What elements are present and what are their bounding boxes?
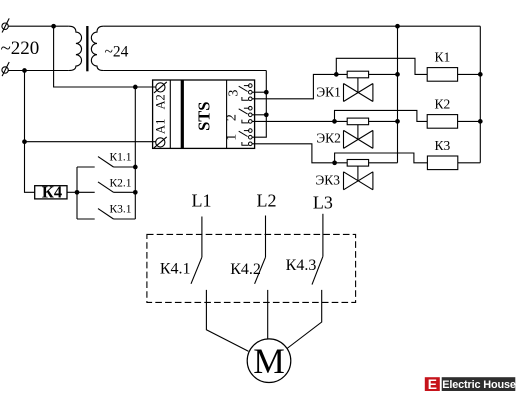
wire phase B down to K4 — [25, 71, 35, 193]
svg-text:К4.1: К4.1 — [160, 260, 191, 277]
svg-text:К2: К2 — [435, 97, 451, 112]
svg-text:3: 3 — [227, 90, 242, 97]
node N1 — [334, 72, 339, 77]
relay coil K3 — [427, 156, 457, 170]
motor M1 circle — [247, 339, 291, 383]
relay coil K2 — [427, 115, 457, 129]
svg-text:К3: К3 — [435, 138, 451, 153]
svg-text:STS: STS — [195, 102, 214, 131]
wire bus1 (valve return rail) — [397, 26, 399, 163]
svg-text:К1.1: К1.1 — [109, 151, 131, 163]
wire L1 drop — [201, 217, 203, 258]
svg-text:К3.1: К3.1 — [109, 203, 131, 215]
wire feed branch 3 — [252, 144, 334, 163]
STS terminal A1 — [154, 137, 167, 148]
wire phase A top — [8, 25, 69, 27]
wire K3 to bus2 — [458, 162, 481, 164]
svg-text:L2: L2 — [257, 190, 277, 210]
STS terminal A2 — [154, 82, 167, 93]
junction right rail at K2.1 — [133, 190, 138, 195]
valve EK1 body — [344, 78, 373, 102]
wire A1 feed — [25, 141, 157, 143]
wire feed branch 1 — [252, 74, 336, 98]
junction J2 on A2 wire — [133, 85, 138, 90]
wire branch 1 to K1 — [336, 58, 427, 74]
contact K4.3 blade — [312, 256, 323, 284]
wire branch 2 to K2 — [335, 110, 428, 121]
wire motor lead 1 — [206, 290, 248, 351]
wire STS common vertical — [252, 71, 266, 138]
junction bus2 branch1 — [478, 72, 483, 77]
node N3 — [332, 160, 337, 165]
wire phase B bottom — [8, 70, 69, 72]
contact K4.1 blade — [191, 257, 202, 284]
wire 24V top rail — [103, 25, 480, 27]
junction bus1 branch1 — [395, 72, 400, 77]
solenoid coil EK3 — [335, 160, 398, 167]
svg-text:ЭК1: ЭК1 — [316, 85, 341, 100]
junction common at contact 3 — [264, 90, 269, 95]
svg-text:A1: A1 — [154, 119, 168, 134]
svg-text:К4: К4 — [42, 183, 62, 202]
svg-text:К4.3: К4.3 — [286, 257, 317, 274]
wire L2 drop — [265, 216, 267, 258]
junction J4 on phase B vertical — [22, 139, 27, 144]
wire motor lead 2 — [267, 290, 269, 339]
wire branch 3 to K3 — [335, 153, 428, 163]
transformer T1 primary winding — [69, 26, 82, 70]
svg-text:К4.2: К4.2 — [230, 261, 261, 278]
transformer T1 secondary winding — [91, 26, 103, 70]
node N2 — [332, 119, 337, 124]
terminal X2 (bottom phase) — [2, 62, 9, 76]
wire right rail of K contacts — [134, 87, 136, 219]
svg-text:A2: A2 — [154, 94, 168, 109]
wire left rail of K contacts — [76, 167, 78, 219]
valve EK3 body — [344, 166, 373, 190]
svg-text:К1: К1 — [435, 50, 451, 65]
svg-text:M: M — [253, 341, 285, 381]
contact K4.2 blade — [255, 257, 266, 284]
junction bus2 branch2 — [478, 119, 483, 124]
STS output contact 2 — [239, 106, 252, 123]
junction right rail at K1.1 — [133, 165, 138, 170]
svg-text:К2.1: К2.1 — [109, 177, 131, 189]
svg-text:~220: ~220 — [1, 38, 40, 59]
wire K4 to contacts rail — [67, 191, 77, 193]
junction bus1 branch2 — [395, 119, 400, 124]
wire common link contact 3 — [252, 91, 266, 93]
wire feed branch 2 — [252, 120, 334, 122]
junction J3 on bottom phase wire — [22, 68, 27, 73]
solenoid coil EK1 — [336, 71, 397, 78]
svg-text:L1: L1 — [192, 191, 212, 211]
junction K4 rail — [75, 190, 80, 195]
svg-text:E: E — [428, 377, 437, 392]
STS output contact 3 — [239, 84, 252, 101]
solenoid coil EK2 — [335, 118, 398, 125]
junction J1 on top phase wire — [51, 24, 56, 29]
wire bus2 (relay return rail) — [479, 26, 481, 163]
transformer T1 core — [86, 26, 88, 71]
wire L3 drop — [322, 214, 324, 257]
junction common at contact 2 — [264, 112, 269, 117]
junction on top rail at bus1 — [395, 24, 400, 29]
svg-text:1: 1 — [225, 134, 240, 141]
valve EK2 body — [344, 125, 373, 149]
relay coil K4 box — [35, 186, 67, 199]
STS output contact 1 — [239, 129, 252, 146]
contact K1.1 — [77, 157, 135, 167]
svg-text:ЭК3: ЭК3 — [315, 173, 340, 188]
logo Electric House — [425, 377, 516, 392]
svg-text:L3: L3 — [313, 192, 333, 212]
wire phase A to A2 — [54, 26, 157, 87]
contact K2.1 — [77, 182, 135, 192]
wire 24V bottom to STS common — [103, 70, 266, 72]
svg-text:2: 2 — [225, 114, 240, 121]
STS controller U1 box — [153, 80, 255, 148]
wire motor lead 3 — [287, 290, 322, 349]
contact K3.1 — [77, 209, 135, 219]
dashed contactor box — [147, 234, 356, 302]
svg-text:ЭК2: ЭК2 — [316, 131, 341, 146]
terminal X1 (top phase) — [2, 18, 9, 32]
svg-text:Electric House: Electric House — [442, 379, 516, 391]
wire K2 to bus2 — [458, 120, 481, 122]
relay coil K1 — [427, 68, 457, 82]
wire K1 to bus2 — [458, 73, 481, 75]
svg-text:~24: ~24 — [104, 44, 128, 61]
wire common link contact 2 — [252, 114, 266, 116]
